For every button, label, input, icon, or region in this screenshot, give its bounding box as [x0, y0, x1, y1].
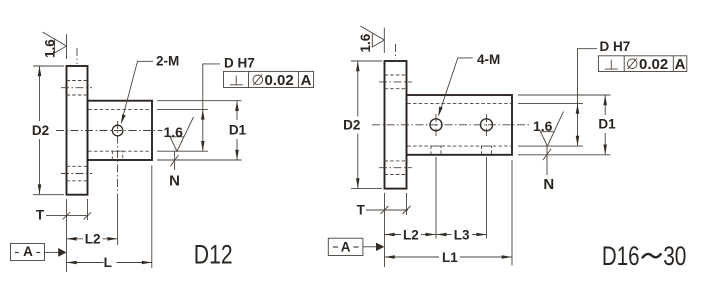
svg-text:D12: D12 [194, 240, 233, 270]
svg-text:A: A [301, 72, 312, 89]
svg-text:1.6: 1.6 [43, 39, 58, 58]
svg-text:L2: L2 [85, 232, 101, 247]
svg-text:D2: D2 [32, 123, 49, 138]
svg-text:A: A [341, 240, 351, 255]
svg-text:30: 30 [663, 241, 686, 271]
svg-text:A: A [675, 56, 686, 73]
svg-text:N: N [543, 176, 554, 193]
svg-text:1.6: 1.6 [533, 118, 553, 134]
svg-text:4-M: 4-M [477, 52, 500, 67]
svg-text:2-M: 2-M [156, 54, 179, 69]
svg-text:D1: D1 [229, 122, 247, 137]
svg-text:D H7: D H7 [600, 39, 631, 54]
svg-text:T: T [357, 202, 366, 217]
svg-text:T: T [36, 207, 45, 222]
svg-text:1.6: 1.6 [358, 33, 373, 52]
svg-text:A: A [23, 244, 33, 259]
svg-text:N: N [169, 173, 180, 190]
svg-text:D1: D1 [598, 116, 616, 131]
svg-text:L3: L3 [454, 227, 470, 242]
svg-text:1.6: 1.6 [164, 124, 184, 140]
svg-text:D16: D16 [602, 241, 640, 271]
svg-text:L: L [104, 255, 112, 270]
svg-text:D2: D2 [343, 118, 360, 133]
svg-text:D H7: D H7 [224, 56, 255, 71]
svg-text:L1: L1 [442, 250, 458, 265]
svg-text:L2: L2 [403, 227, 419, 242]
svg-text:0.02: 0.02 [265, 72, 294, 89]
svg-text:0.02: 0.02 [639, 56, 668, 73]
